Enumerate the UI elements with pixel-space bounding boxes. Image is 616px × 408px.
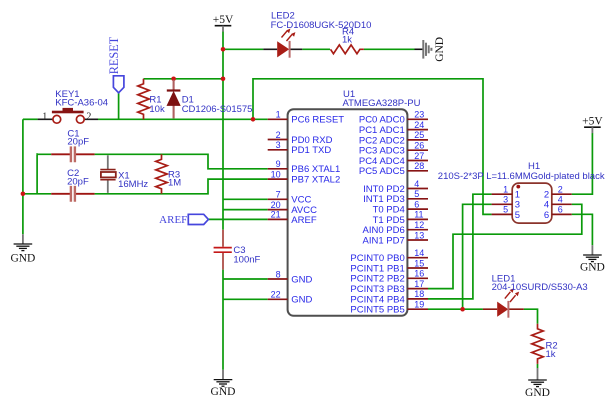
svg-text:GND: GND (525, 387, 550, 399)
svg-text:16: 16 (414, 269, 424, 279)
H1 pin 3 (492, 195, 520, 211)
svg-text:100nF: 100nF (233, 254, 260, 265)
wire C1 left (37, 153, 51, 154)
svg-text:3: 3 (276, 140, 281, 150)
U1 pin 16 PCINT2 PB2 (350, 269, 428, 285)
U1 pin 13 AIN1 PD7 (363, 230, 428, 246)
power flag +5V top (213, 14, 234, 32)
svg-text:210S-2*3P L=11.6MMGold-plated: 210S-2*3P L=11.6MMGold-plated black (438, 171, 605, 182)
ground flag below R2 (525, 368, 550, 399)
junction D1 anode (171, 77, 176, 82)
svg-text:1M: 1M (168, 178, 181, 189)
svg-text:20: 20 (271, 200, 281, 210)
U1 pin 9 PB6 XTAL1 (268, 159, 341, 175)
svg-text:AIN1 PD7: AIN1 PD7 (363, 235, 405, 246)
U1 pin 5 INT1 PD3 (363, 189, 428, 205)
wire GND to pin8 (223, 278, 268, 280)
U1 pin 21 AREF (268, 210, 317, 226)
resistor R4 1k (331, 26, 364, 53)
svg-text:20pF: 20pF (67, 137, 89, 148)
svg-text:GND: GND (211, 386, 236, 398)
U1 pin 17 PCINT3 PB3 (350, 279, 428, 295)
diode D1 CD1206-S01575 (167, 80, 253, 119)
svg-text:+5V: +5V (213, 14, 234, 26)
resistor R1 10k (138, 79, 165, 120)
svg-text:28: 28 (414, 161, 424, 171)
wire MISO PB4 pin18 to H1 pin1 (428, 194, 492, 299)
U1 pin 2 PD0 RXD (268, 130, 333, 146)
connector H1 210S-2*3P header (438, 161, 605, 223)
wire +5V to LED2 anode (223, 48, 263, 50)
svg-text:KFC-A36-04: KFC-A36-04 (55, 97, 108, 108)
wire C3 bottom to GND (222, 270, 224, 370)
switch KEY1 KFC-A36-04 (38, 89, 109, 123)
svg-text:5: 5 (503, 205, 508, 215)
svg-text:14: 14 (414, 248, 424, 258)
wire LED2 cathode to R4 (302, 48, 330, 50)
wire MOSI PB3 pin17 to H1 pin4 (428, 204, 582, 288)
U1 pin 23 PC0 ADC0 (359, 110, 428, 126)
H1 pin 5 (492, 205, 520, 221)
wire C2/X1/R3 bottom row to XTAL2 pin10 (95, 179, 268, 194)
svg-text:5: 5 (414, 189, 419, 199)
U1 pin 10 PB7 XTAL2 (268, 169, 341, 185)
LED LED1 204-10SURD/S530-A3 (483, 273, 588, 317)
wire C1 row to C2 row left vertical (36, 154, 38, 194)
svg-text:GND: GND (580, 262, 605, 274)
wire +5V rail down to C3/AVCC column (222, 32, 224, 230)
wire RESET net to H1 pin5 (253, 79, 492, 215)
U1 pin 27 PC4 ADC4 (359, 151, 428, 167)
svg-text:8: 8 (276, 269, 281, 279)
svg-text:10k: 10k (149, 104, 165, 115)
U1 pin 24 PC1 ADC1 (359, 120, 428, 136)
wire KEY1 pin2 / RESET row to U1 pin1 (98, 118, 268, 120)
U1 pin 26 PC3 ADC3 (359, 141, 428, 157)
wire R2 to GND (537, 364, 539, 368)
svg-text:1: 1 (503, 185, 508, 195)
wire KEY1 pin1 to ground branch (23, 118, 38, 120)
IC U1 ATMEGA328P-PU body (288, 89, 421, 316)
junction SCK/LED1 (460, 307, 465, 312)
U1 pin 28 PC5 ADC5 (359, 161, 428, 177)
svg-text:PD1 TXD: PD1 TXD (291, 145, 331, 156)
U1 pin 15 PCINT1 PB1 (350, 258, 428, 274)
capacitor C3 100nF (214, 230, 261, 270)
svg-text:3: 3 (503, 195, 508, 205)
wire left ground branch down (22, 119, 24, 234)
resistor R3 1M (156, 154, 181, 193)
svg-text:CD1206-S01575: CD1206-S01575 (182, 104, 253, 115)
svg-text:+5V: +5V (582, 116, 603, 128)
ground flag bottom-left (10, 234, 35, 264)
ground flag right of R4 (rotated) (415, 37, 447, 62)
wire H1 pin2 to +5V (572, 133, 593, 194)
svg-text:20pF: 20pF (67, 176, 89, 187)
net flag RESET (107, 36, 124, 93)
resistor R2 1k (532, 324, 558, 364)
U1 pin 1 PC6 RESET (268, 110, 345, 126)
U1 pin 4 INT0 PD2 (363, 179, 428, 195)
svg-text:1k: 1k (342, 35, 352, 46)
svg-text:GND: GND (291, 295, 312, 306)
svg-text:13: 13 (414, 230, 424, 240)
svg-text:GND: GND (10, 253, 35, 265)
U1 pin 6 T0 PD4 (373, 199, 428, 215)
U1 pin 11 T1 PD5 (373, 210, 428, 226)
svg-text:19: 19 (414, 300, 424, 310)
svg-text:11: 11 (414, 210, 423, 220)
svg-text:AREF: AREF (291, 215, 317, 226)
U1 pin 14 PCINT0 PB0 (350, 248, 428, 264)
wire R1/D1 tops to +5V rail (144, 78, 223, 80)
svg-text:12: 12 (414, 220, 424, 230)
svg-text:6: 6 (558, 205, 563, 215)
svg-text:4: 4 (414, 179, 419, 189)
wire LED1 cathode to R2 (524, 309, 538, 324)
H1 pin 4 (544, 195, 572, 211)
H1 pin 2 (544, 185, 572, 201)
wire +5V to AVCC pin20 (223, 209, 268, 211)
svg-text:FC-D1608UGK-520D10: FC-D1608UGK-520D10 (271, 20, 372, 31)
LED LED2 FC-D1608UGK-520D10 (263, 10, 371, 57)
svg-text:18: 18 (414, 289, 424, 299)
net flag AREF (159, 214, 208, 226)
U1 pin 19 PCINT5 PB5 (350, 300, 428, 316)
capacitor C1 20pF (51, 129, 94, 163)
U1 pin 12 AIN0 PD6 (363, 220, 428, 236)
svg-text:2: 2 (558, 185, 563, 195)
crystal X1 16MHz (100, 155, 148, 193)
svg-text:16MHz: 16MHz (118, 179, 148, 190)
svg-text:PCINT5 PB5: PCINT5 PB5 (350, 305, 404, 316)
U1 pin 7 VCC (268, 190, 312, 206)
junction RESET net (251, 117, 256, 122)
svg-text:7: 7 (276, 190, 281, 200)
junction +5V/LED2 (221, 47, 226, 52)
svg-text:6: 6 (544, 210, 549, 221)
U1 pin 25 PC2 ADC2 (359, 130, 428, 146)
svg-text:26: 26 (414, 141, 424, 151)
U1 pin 22 GND (268, 290, 313, 306)
ground flag bottom-center (211, 370, 236, 398)
wire H1 pin6 to GND (572, 214, 593, 245)
svg-text:PC6 RESET: PC6 RESET (291, 115, 344, 126)
svg-text:1: 1 (276, 110, 281, 120)
U1 pin 8 GND (268, 269, 313, 285)
wire SCK PB5 pin19 to LED1 (428, 308, 483, 310)
power flag +5V right (H1 VCC) (582, 116, 603, 134)
wire C2 left (23, 193, 51, 195)
wire SCK branch up to H1 pin3 (463, 204, 492, 309)
svg-text:AREF: AREF (159, 214, 187, 226)
svg-text:10: 10 (271, 169, 281, 179)
svg-text:1: 1 (42, 112, 47, 123)
svg-text:15: 15 (414, 258, 424, 268)
svg-text:6: 6 (414, 199, 419, 209)
ground flag below H1 pin6 (580, 245, 605, 273)
svg-text:23: 23 (414, 110, 424, 120)
U1 pin 3 PD1 TXD (268, 140, 332, 156)
svg-text:GND: GND (434, 37, 446, 62)
svg-text:21: 21 (271, 210, 281, 220)
svg-text:PB7 XTAL2: PB7 XTAL2 (291, 175, 340, 186)
svg-text:1k: 1k (546, 349, 556, 360)
wire +5V to VCC pin7 (223, 198, 268, 200)
H1 pin 1 (492, 185, 520, 201)
svg-text:5: 5 (515, 210, 520, 221)
svg-text:2: 2 (86, 112, 91, 123)
capacitor C2 20pF (51, 168, 94, 202)
U1 pin 18 PCINT4 PB4 (350, 289, 428, 305)
svg-text:27: 27 (414, 151, 424, 161)
junction GND/C2 (21, 192, 26, 197)
wire GND to pin22 (223, 298, 268, 300)
wire AREF flag to pin21 (208, 218, 268, 220)
svg-text:24: 24 (414, 120, 424, 130)
svg-text:17: 17 (414, 279, 424, 289)
svg-text:RESET: RESET (107, 36, 121, 74)
wire C1/X1/R3 top row to XTAL1 pin9 (95, 154, 268, 169)
U1 pin 20 AVCC (268, 200, 317, 216)
svg-text:25: 25 (414, 130, 424, 140)
svg-text:204-10SURD/S530-A3: 204-10SURD/S530-A3 (492, 282, 588, 293)
svg-text:4: 4 (558, 195, 563, 205)
wire R4 to GND flag (364, 48, 415, 50)
wire RESET flag to row (118, 93, 120, 120)
svg-text:GND: GND (291, 274, 312, 285)
svg-text:2: 2 (276, 130, 281, 140)
svg-text:22: 22 (271, 290, 281, 300)
svg-text:9: 9 (276, 159, 281, 169)
svg-text:PC5 ADC5: PC5 ADC5 (359, 166, 405, 177)
junction +5V/R1-D1 (221, 77, 226, 82)
H1 pin 6 (544, 205, 572, 221)
svg-text:ATMEGA328P-PU: ATMEGA328P-PU (343, 98, 421, 109)
